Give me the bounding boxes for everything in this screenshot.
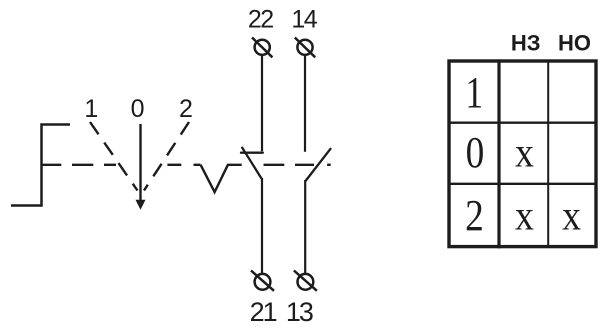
- svg-text:22: 22: [248, 6, 273, 34]
- dashed diagonal to position 2: [144, 122, 189, 191]
- svg-text:x: x: [515, 192, 534, 239]
- dashed actuator linkage line: [42, 164, 331, 166]
- svg-text:НО: НО: [558, 30, 591, 55]
- svg-text:2: 2: [465, 190, 484, 240]
- svg-text:13: 13: [286, 297, 313, 327]
- svg-text:1: 1: [465, 67, 483, 117]
- detent spring (V notch): [201, 165, 242, 192]
- terminal 14 (screw symbol): [295, 38, 315, 58]
- x mark row 2 col НЗ: [515, 192, 534, 239]
- wire terminal 14 to NO contact: [304, 55, 306, 152]
- terminal 21 (screw symbol): [251, 271, 274, 291]
- svg-text:НЗ: НЗ: [511, 30, 541, 55]
- wire terminal 22 to NC contact: [261, 55, 263, 151]
- svg-text:21: 21: [250, 297, 277, 327]
- dashed diagonal to position 1: [90, 122, 138, 191]
- NC contact 22-21 (fixed seat + moving lever): [241, 148, 263, 179]
- table row label 0: [466, 127, 485, 177]
- wire NC contact to terminal 21: [261, 178, 263, 274]
- x mark row 2 col НО: [562, 192, 581, 239]
- svg-text:0: 0: [131, 95, 145, 123]
- terminal 13 (screw symbol): [294, 271, 317, 291]
- x mark row 0 col НЗ: [515, 129, 534, 176]
- NO contact 13-14 (moving lever): [306, 149, 331, 181]
- table row label 1: [465, 67, 483, 117]
- svg-text:x: x: [515, 129, 534, 176]
- contact state table grid: [449, 59, 596, 248]
- svg-text:14: 14: [291, 6, 317, 34]
- svg-text:1: 1: [84, 95, 98, 123]
- svg-text:x: x: [562, 192, 581, 239]
- svg-text:2: 2: [179, 95, 193, 123]
- table row label 2: [465, 190, 484, 240]
- svg-text:0: 0: [466, 127, 485, 177]
- actuator arrow (position 0 pointer): [136, 124, 144, 209]
- terminal 22 (screw symbol): [252, 38, 272, 58]
- wire NO contact to terminal 13: [304, 180, 306, 274]
- cam profile (staircase): [11, 125, 70, 206]
